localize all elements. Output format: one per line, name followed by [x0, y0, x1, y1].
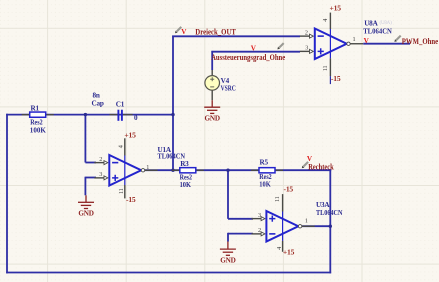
svg-text:2: 2	[305, 29, 308, 36]
svg-text:2: 2	[258, 227, 261, 234]
probe pencil Rechteck	[302, 162, 308, 168]
svg-text:1: 1	[146, 164, 149, 171]
svg-text:VSRC: VSRC	[221, 83, 236, 92]
junction C1 out / Dreieck vertical	[171, 113, 174, 116]
svg-text:+15: +15	[330, 4, 342, 13]
svg-text:3: 3	[305, 44, 308, 51]
ground U3A pin2	[220, 242, 236, 256]
probe pencil PWM_Ohne	[394, 36, 400, 42]
op-amp U3A power pin 11 (-15) top	[282, 194, 284, 252]
op-amp U1A power pin 4 (+15)	[124, 138, 126, 198]
svg-text:PWM_Ohne: PWM_Ohne	[402, 37, 439, 46]
svg-text:10K: 10K	[180, 180, 192, 189]
probe pencil Dreieck_OUT	[175, 27, 181, 33]
wire left vertical feedback	[6, 114, 8, 274]
svg-text:1: 1	[305, 218, 308, 225]
wire bottom feedback horizontal	[6, 272, 331, 274]
wire Dreieck_OUT top horizontal to U8A pin2	[172, 35, 300, 37]
wire ground to U1A pin3	[85, 177, 96, 179]
voltage source V4 VSRC	[205, 70, 220, 100]
op-amp U1A body	[94, 155, 157, 186]
capacitor C1	[110, 110, 133, 121]
svg-text:GND: GND	[78, 210, 93, 218]
svg-text:Cap: Cap	[92, 100, 104, 108]
wire feedback top-left horizontal (Rechteck to R1/C1 node)	[6, 114, 173, 116]
svg-text:TL064CN: TL064CN	[158, 152, 186, 161]
wire junction C1 node down to U1A pin2	[84, 114, 86, 163]
wire node to U3A pin3	[227, 169, 229, 218]
svg-text:R1: R1	[31, 105, 40, 113]
wire U1A output to R3	[144, 169, 180, 171]
svg-text:4: 4	[117, 145, 124, 148]
svg-text:R3: R3	[180, 160, 189, 168]
ground V4	[204, 100, 220, 113]
wire R3 to R5 segment	[196, 169, 260, 171]
svg-text:-15: -15	[284, 185, 294, 194]
svg-text:TL064CN: TL064CN	[316, 208, 343, 217]
svg-text:Dreieck_OUT: Dreieck_OUT	[195, 28, 236, 37]
svg-text:Aussteuerungsgrad_Ohne: Aussteuerungsgrad_Ohne	[211, 53, 285, 62]
wire Dreieck_OUT vertical (C1 out to top corner and U1A output)	[172, 36, 174, 171]
svg-text:R5: R5	[260, 159, 269, 167]
junction R1/C1 node	[84, 113, 87, 116]
svg-text:10K: 10K	[259, 180, 271, 189]
svg-text:0: 0	[134, 114, 138, 122]
wire U8A output PWM_Ohne	[363, 43, 410, 45]
svg-text:2: 2	[99, 156, 102, 163]
wire right vertical feedback (Rechteck node)	[329, 169, 331, 273]
svg-text:GND: GND	[220, 256, 235, 264]
svg-text:C1: C1	[116, 100, 125, 108]
svg-text:3: 3	[258, 212, 261, 219]
svg-text:11: 11	[322, 65, 329, 71]
svg-text:11: 11	[118, 188, 125, 194]
svg-text:8n: 8n	[93, 92, 100, 100]
svg-text:-15: -15	[331, 74, 341, 83]
resistor R3	[172, 168, 204, 173]
wire Aussteuerungsgrad horizontal to U8A pin3	[211, 51, 300, 53]
wire V4 to Aussteuerungsgrad net	[211, 51, 213, 70]
svg-text:4: 4	[276, 247, 283, 250]
wire U3A output to Rechteck vertical	[302, 225, 330, 227]
op-amp U8A power pin 4 (+15)	[329, 13, 331, 85]
svg-text:3: 3	[99, 171, 102, 178]
svg-text:GND: GND	[205, 114, 220, 122]
svg-text:4: 4	[322, 19, 329, 22]
svg-text:(U8A): (U8A)	[380, 21, 393, 26]
svg-text:11: 11	[274, 196, 281, 202]
ground U1A pin3	[78, 195, 94, 208]
probe pencil Aussteuerungsgrad	[277, 43, 283, 49]
wire R5 to Rechteck corner	[275, 169, 332, 171]
op-amp U3A body	[251, 211, 314, 242]
svg-text:Rechteck: Rechteck	[308, 163, 334, 172]
svg-text:1: 1	[353, 36, 356, 43]
junction U1A output node	[171, 169, 174, 172]
svg-text:100K: 100K	[30, 125, 46, 134]
resistor R1	[22, 112, 54, 117]
svg-text:+15: +15	[283, 248, 295, 257]
svg-text:TL064CN: TL064CN	[363, 26, 392, 35]
junction R3/R5 to U3A	[226, 169, 229, 172]
svg-text:-15: -15	[126, 195, 136, 204]
op-amp U8A body	[300, 29, 363, 60]
junction U3A output / Rechteck vertical	[329, 225, 332, 228]
wire U3A pin2 to ground	[228, 233, 253, 235]
resistor R5	[251, 168, 283, 173]
svg-text:+15: +15	[124, 130, 136, 139]
